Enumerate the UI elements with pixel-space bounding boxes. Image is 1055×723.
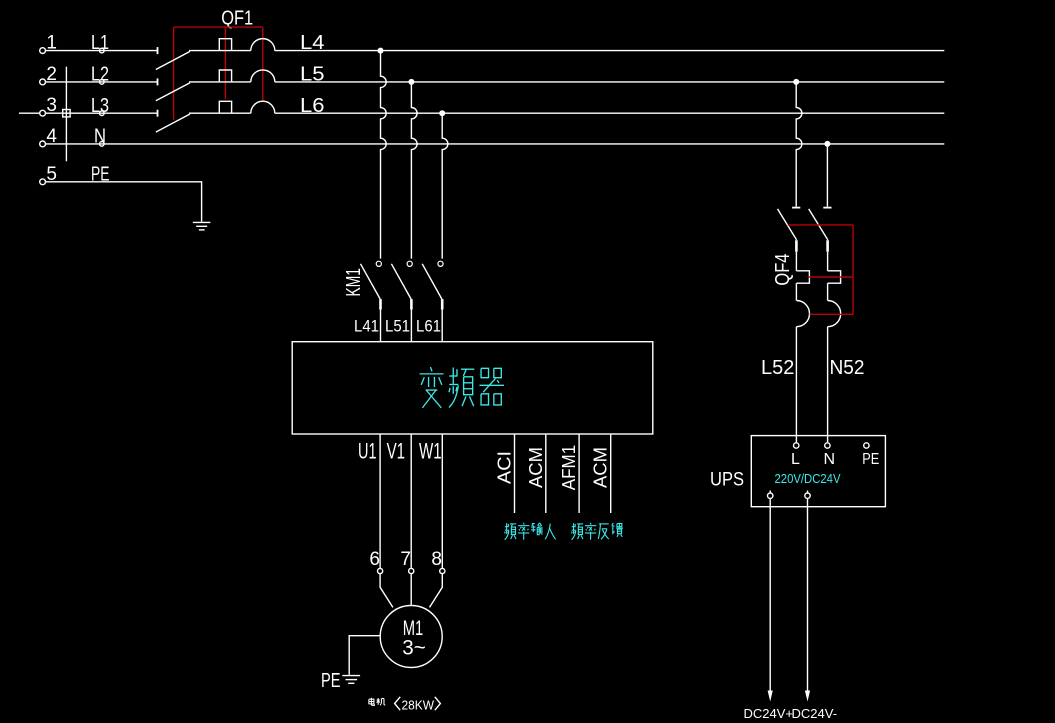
junction L4 dropper <box>378 48 384 54</box>
KM1 pole 2 <box>391 261 412 342</box>
pin N <box>825 443 830 448</box>
wire DC24V+ <box>769 498 771 690</box>
inverter box <box>292 342 653 434</box>
wire L6 bus <box>275 112 945 114</box>
junction N to QF4 <box>824 141 830 147</box>
svg-text:L61: L61 <box>416 317 441 336</box>
svg-text:QF1: QF1 <box>221 7 253 29</box>
svg-text:L4: L4 <box>300 32 325 54</box>
wire QF4 L feed with hops <box>796 82 802 207</box>
pin AFM1 <box>578 434 580 513</box>
svg-text:ACM: ACM <box>591 447 611 488</box>
svg-text:PE: PE <box>862 451 879 468</box>
wire L3 stub left <box>19 112 40 114</box>
wire motor V <box>410 574 412 606</box>
wire motor W <box>430 574 443 608</box>
wire PE <box>46 182 202 222</box>
wire V1 <box>410 434 412 568</box>
QF1 red frame <box>174 27 263 120</box>
wire QF4 N feed <box>826 144 828 207</box>
UPS box <box>751 436 885 507</box>
pin DC- <box>805 493 810 498</box>
wire L5 bus <box>275 81 945 83</box>
QF1 pole 3 <box>156 101 275 132</box>
svg-text:W1: W1 <box>419 439 442 464</box>
svg-text:L51: L51 <box>385 317 410 336</box>
svg-text:ACM: ACM <box>526 447 546 488</box>
junction L6 dropper <box>439 110 445 116</box>
ground motor <box>342 676 360 684</box>
QF4 red frame <box>788 225 853 314</box>
wire U1 <box>379 434 381 568</box>
svg-text:220V/DC24V: 220V/DC24V <box>775 472 842 486</box>
svg-text:L: L <box>791 451 800 468</box>
svg-text:28KW: 28KW <box>402 697 435 712</box>
pin L <box>794 443 799 448</box>
svg-text:L41: L41 <box>354 317 379 336</box>
wire motor U <box>380 574 393 608</box>
svg-text:N: N <box>824 451 836 468</box>
svg-text:QF4: QF4 <box>772 254 794 286</box>
terminal 3 <box>40 110 46 116</box>
svg-text:KM1: KM1 <box>343 268 365 297</box>
QF4 pole L <box>778 208 810 443</box>
svg-text:DC24V+: DC24V+ <box>744 706 794 721</box>
svg-text:L6: L6 <box>300 95 325 117</box>
wire dropper 1 with hops <box>381 51 387 259</box>
junction L5 dropper <box>408 79 414 85</box>
pin ACM2 <box>610 434 612 513</box>
wire dropper 3 with hop <box>442 113 448 258</box>
KM1 pole 3 <box>422 261 443 342</box>
label 频率输入 (frequency input) <box>505 523 556 540</box>
wire dropper 2 with hops <box>411 82 417 259</box>
pin ACM <box>545 434 547 513</box>
label 频率反馈 (frequency feedback) <box>572 523 623 540</box>
svg-text:L5: L5 <box>300 64 325 86</box>
svg-text:PE: PE <box>321 670 341 692</box>
terminal 4 <box>40 141 46 147</box>
svg-text:AFM1: AFM1 <box>559 445 579 491</box>
svg-text:N52: N52 <box>830 357 865 379</box>
svg-text:U1: U1 <box>358 439 377 464</box>
QF1 pole 1 <box>156 39 275 70</box>
wire N bus <box>46 143 945 145</box>
svg-text:7: 7 <box>400 549 411 570</box>
junction L5 to QF4 <box>793 79 799 85</box>
pin DC+ <box>768 493 773 498</box>
label 变频器 (inverter) <box>420 367 504 408</box>
junction box symbol <box>63 110 70 117</box>
wire vertical tap <box>65 67 67 162</box>
pin PE <box>864 443 869 448</box>
QF1 pole 2 <box>156 70 275 101</box>
terminal 1 <box>40 48 46 54</box>
motor M1 <box>380 606 442 668</box>
svg-text:UPS: UPS <box>710 470 744 491</box>
terminal 2 <box>40 79 46 85</box>
svg-text:DC24V-: DC24V- <box>792 706 838 721</box>
svg-text:8: 8 <box>431 549 442 570</box>
wire W1 <box>441 434 443 568</box>
pin ACI <box>514 434 516 513</box>
ground PE <box>193 222 211 230</box>
label 28KW <box>395 697 401 710</box>
terminal 5 <box>40 179 46 185</box>
svg-text:V1: V1 <box>387 439 406 464</box>
svg-text:3~: 3~ <box>402 637 426 660</box>
wire L3 <box>46 112 158 114</box>
QF4 pole N <box>809 208 841 443</box>
svg-text:L52: L52 <box>761 357 794 379</box>
svg-text:6: 6 <box>369 549 380 570</box>
wire DC24V- <box>807 498 809 690</box>
wire L2 <box>46 81 158 83</box>
wire L1 <box>46 50 158 52</box>
wire motor PE <box>349 636 380 675</box>
wire L4 bus <box>275 50 945 52</box>
svg-text:ACI: ACI <box>495 451 515 484</box>
label 电机 (motor) <box>369 698 385 706</box>
KM1 pole 1 <box>361 261 382 342</box>
